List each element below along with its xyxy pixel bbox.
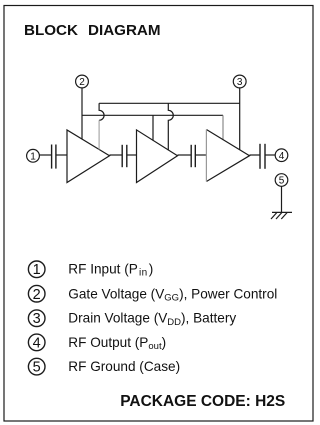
capacitor C2 [122, 145, 127, 167]
ground [271, 212, 292, 219]
capacitor C4 [260, 144, 265, 169]
wire C2 to A2 [127, 154, 137, 156]
wire gate bus [82, 114, 223, 116]
legend pin 1 [28, 261, 45, 278]
node 1 pin circle [27, 149, 40, 162]
svg-text:DIAGRAM: DIAGRAM [88, 22, 161, 39]
wire node2 gate drop to A1 [81, 88, 83, 140]
svg-text:3: 3 [33, 311, 41, 327]
wire gate drop to A3 [222, 115, 224, 140]
svg-text:3: 3 [237, 77, 243, 88]
wire gate drop to A2 [152, 115, 154, 140]
wire A3 to C4 [250, 154, 261, 156]
legend pin 2 [28, 285, 45, 302]
op-amp A3 [206, 130, 249, 182]
legend pin 3 [28, 310, 45, 327]
node 4 pin circle [275, 149, 288, 162]
svg-text:PACKAGE CODE: H2S: PACKAGE CODE: H2S [120, 393, 285, 410]
svg-text:BLOCK: BLOCK [24, 22, 78, 39]
svg-text:5: 5 [279, 176, 285, 187]
svg-text:1: 1 [30, 151, 36, 162]
wire C4 to node4 [265, 154, 275, 156]
wire drain drop to A1 with hop [99, 103, 104, 120]
svg-text:RF Ground (Case): RF Ground (Case) [68, 359, 180, 374]
wire node5 to ground [281, 186, 283, 212]
wire drain drop to A2 with hop [168, 103, 173, 150]
svg-text:5: 5 [33, 360, 41, 376]
svg-text:2: 2 [33, 287, 41, 303]
wire A1 to C2 [110, 154, 123, 156]
legend pin 4 [28, 334, 45, 351]
svg-text:2: 2 [79, 77, 85, 88]
legend pin 5 [28, 358, 45, 375]
svg-text:4: 4 [279, 151, 285, 162]
node 5 pin circle [275, 174, 288, 187]
capacitor C3 [191, 145, 195, 167]
svg-text:Drain Voltage (VDD), Battery: Drain Voltage (VDD), Battery [68, 311, 236, 328]
wire A2 to C3 [178, 154, 192, 156]
op-amp A1 [67, 130, 110, 183]
wire node3 drain drop to A3 [239, 88, 241, 150]
svg-text:4: 4 [33, 335, 41, 351]
svg-text:1: 1 [33, 262, 41, 278]
wire node1 to C1 [40, 154, 52, 156]
node 2 pin circle [76, 75, 89, 88]
op-amp A2 [137, 130, 178, 183]
capacitor C1 [52, 145, 56, 169]
wire drain bus [99, 102, 240, 104]
wire C3 to A3 [195, 154, 206, 156]
node 3 pin circle [233, 75, 246, 88]
wire C1 to A1 [56, 154, 67, 156]
